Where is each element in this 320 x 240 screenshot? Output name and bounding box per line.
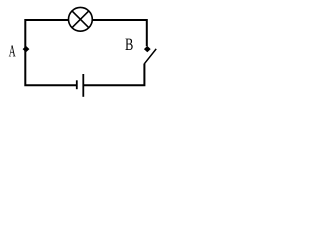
wire bottom-right from battery to switch lower terminal [84,64,144,86]
node B (diamond dot) [144,46,151,52]
battery cell: long plate (positive) [82,74,84,97]
battery cell: short plate (negative) [76,80,78,89]
label A [9,45,16,56]
wire top-right and right side down to node B [92,20,147,46]
switch S1 blade (open) [144,49,156,64]
node A (diamond dot) [23,46,30,52]
label B [125,39,132,50]
lamp L1 (circle with X) [69,7,93,31]
wire top-left, left side, bottom-left to battery [25,20,76,85]
